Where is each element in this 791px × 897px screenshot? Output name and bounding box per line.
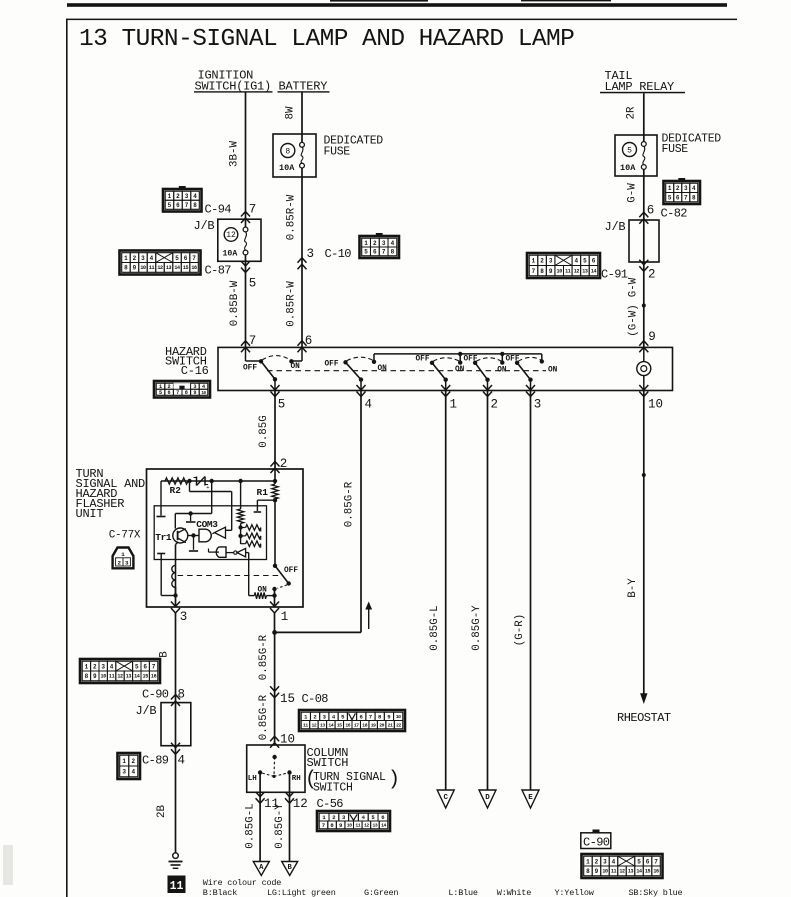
svg-text:RH: RH	[292, 775, 301, 783]
arrowheads entering J/B right pin 6	[639, 212, 648, 217]
svg-text:8: 8	[378, 713, 382, 720]
svg-text:C-90: C-90	[142, 688, 169, 702]
svg-text:OFF: OFF	[416, 356, 430, 364]
svg-text:0.85G-L: 0.85G-L	[429, 605, 441, 650]
svg-text:5: 5	[583, 258, 587, 265]
svg-text:4: 4	[131, 769, 135, 776]
switch 1 wire from pin 7 to OFF contact	[245, 347, 247, 361]
flasher pin 1 exit arrowheads and label	[270, 602, 279, 607]
bus junction for switch 4 ON	[500, 352, 504, 356]
svg-text:C-16: C-16	[181, 364, 209, 378]
hazard ON bus wire feeding switches 2-5	[374, 353, 542, 355]
pin 4 exit arrowheads and label	[357, 385, 366, 390]
svg-text:4: 4	[193, 193, 197, 200]
switch 2 (pin 4): OFF contact, lever, ON contact	[343, 360, 347, 364]
wire stubs through relay fuse	[643, 135, 645, 142]
svg-text:Y:Yellow: Y:Yellow	[555, 888, 595, 897]
svg-text:8: 8	[85, 673, 89, 680]
svg-text:2R: 2R	[626, 106, 638, 119]
svg-text:3: 3	[534, 398, 542, 412]
svg-text:3: 3	[101, 663, 105, 670]
svg-text:C-56: C-56	[317, 797, 344, 811]
node: blob on B-Y wire	[642, 473, 646, 477]
arrowheads entering hazard switch pin 9	[639, 341, 648, 346]
page frame: top heavy rule	[67, 3, 727, 7]
comparator triangle 1	[215, 527, 226, 538]
switch levers to box bottom	[274, 379, 276, 390]
off-page arrow D	[479, 790, 496, 808]
svg-text:2: 2	[676, 185, 680, 192]
node: base rail tap with ground stub	[188, 511, 192, 515]
svg-text:9: 9	[339, 822, 343, 829]
svg-text:13: 13	[628, 869, 634, 875]
svg-text:8W: 8W	[285, 106, 297, 119]
zener diode	[196, 477, 198, 486]
svg-text:2: 2	[133, 255, 137, 262]
svg-text:16: 16	[191, 265, 197, 271]
svg-text:C-87: C-87	[205, 264, 232, 278]
arrowheads leaving J/B pin 4	[171, 743, 180, 748]
svg-text:+: +	[206, 484, 209, 491]
svg-text:SB:Sky blue: SB:Sky blue	[629, 888, 683, 897]
svg-text:8: 8	[193, 202, 197, 209]
arrowheads entering hazard switch pin 7	[241, 341, 250, 346]
svg-text:RHEOSTAT: RHEOSTAT	[617, 711, 671, 725]
flasher IC inner box	[154, 506, 266, 560]
svg-text:9: 9	[549, 268, 553, 275]
dedicated fuse box (tail relay)	[615, 135, 657, 176]
svg-text:19: 19	[371, 722, 376, 728]
svg-text:9: 9	[93, 673, 97, 680]
svg-text:0.85R-W: 0.85R-W	[286, 194, 298, 240]
off-page arrow E	[522, 790, 539, 808]
svg-text:2: 2	[313, 713, 317, 720]
svg-text:3: 3	[125, 560, 129, 567]
wire: junction across and up to hazard pin 4 (0.85G-R)	[275, 631, 361, 633]
svg-text:3: 3	[141, 255, 145, 262]
svg-text:10: 10	[602, 869, 608, 875]
flasher pin 3 exit arrowheads and label	[171, 602, 180, 607]
svg-text:12: 12	[311, 722, 316, 728]
svg-text:11: 11	[149, 265, 155, 271]
svg-text:10: 10	[396, 714, 401, 720]
svg-text:6: 6	[381, 814, 385, 821]
svg-text:ON: ON	[378, 365, 388, 373]
arrowheads leaving J/B pin 5	[241, 261, 250, 266]
svg-text:5: 5	[371, 814, 375, 821]
connector C-82	[678, 178, 685, 181]
svg-text:C-91: C-91	[601, 268, 628, 282]
svg-text:3: 3	[684, 185, 688, 192]
svg-text:15: 15	[337, 722, 342, 728]
svg-text:C-89: C-89	[142, 754, 169, 768]
svg-text:15: 15	[143, 674, 149, 680]
svg-text:3: 3	[342, 814, 346, 821]
svg-text:14: 14	[381, 823, 386, 829]
arrowheads at C-08 pin 15 crossing	[270, 686, 279, 691]
node: R2/zener junction	[187, 479, 191, 483]
svg-text:13: 13	[320, 722, 325, 728]
svg-text:22: 22	[396, 722, 401, 728]
page frame: stray top-edge scan fragments	[330, 0, 428, 2]
arrowheads entering J/B pin 8	[171, 694, 180, 699]
svg-text:14: 14	[328, 722, 333, 728]
node: zener right junction	[210, 479, 214, 483]
wire: LH output 0.85G-L	[259, 773, 261, 862]
svg-text:10: 10	[140, 265, 146, 271]
switch 1 OFF contact	[259, 359, 263, 363]
svg-text:6: 6	[360, 713, 364, 720]
svg-text:5: 5	[135, 663, 139, 670]
svg-text:Tr1: Tr1	[155, 532, 172, 543]
svg-text:B-Y: B-Y	[627, 578, 639, 598]
page left border	[66, 19, 68, 897]
svg-text:11: 11	[170, 880, 184, 893]
svg-text:W:White: W:White	[497, 888, 531, 897]
svg-text:13 TURN-SIGNAL LAMP AND HAZARD: 13 TURN-SIGNAL LAMP AND HAZARD LAMP	[79, 26, 574, 53]
svg-text:2: 2	[595, 858, 599, 865]
svg-text:1: 1	[532, 258, 536, 265]
svg-text:3: 3	[180, 610, 188, 624]
svg-text:0.85G: 0.85G	[258, 415, 270, 447]
svg-text:1: 1	[124, 255, 128, 262]
svg-text:10: 10	[101, 674, 107, 680]
wire stubs through J/B fuse 12	[245, 219, 247, 227]
switch 5 (pin 3)	[515, 361, 519, 365]
svg-text:10A: 10A	[223, 250, 238, 259]
svg-text:ON: ON	[455, 366, 465, 374]
svg-text:0.85B-W: 0.85B-W	[229, 280, 241, 326]
svg-text:0.85G-R: 0.85G-R	[258, 694, 270, 740]
svg-text:11: 11	[303, 722, 308, 728]
svg-text:J/B: J/B	[194, 219, 215, 233]
wire: zener junction to Tr1 base (L path)	[211, 481, 213, 514]
hazard illumination lamp between pins 9 and 10	[643, 347, 645, 361]
svg-text:C-94: C-94	[205, 203, 232, 217]
svg-text:5: 5	[627, 146, 632, 155]
svg-text:16: 16	[345, 722, 350, 728]
svg-text:(G-R): (G-R)	[514, 614, 526, 646]
svg-text:9: 9	[133, 265, 137, 272]
transistor Tr1	[173, 528, 188, 543]
svg-text:15: 15	[183, 265, 189, 271]
svg-text:8: 8	[124, 265, 128, 272]
svg-text:10: 10	[347, 823, 352, 829]
svg-text:4: 4	[575, 258, 579, 265]
svg-text:1: 1	[364, 240, 368, 247]
svg-text:10A: 10A	[620, 163, 636, 173]
svg-text:ON: ON	[497, 367, 507, 375]
junction block J/B (bottom left)	[161, 703, 191, 746]
internal ground bar (left)	[157, 516, 166, 518]
svg-text:0.85G-Y: 0.85G-Y	[471, 605, 483, 651]
svg-text:7: 7	[152, 663, 156, 670]
gate D2	[216, 547, 226, 557]
wire Tr1 emitter to gate	[188, 535, 199, 537]
svg-text:1: 1	[168, 193, 172, 200]
svg-text:7: 7	[654, 858, 658, 865]
svg-text:SWITCH: SWITCH	[313, 782, 353, 795]
column switch box	[247, 745, 305, 792]
wire: hazard pin 3 to arrow E ((G-R))	[530, 391, 532, 791]
svg-text:4: 4	[391, 240, 395, 247]
svg-text:2: 2	[118, 560, 122, 567]
fuse 12 10A inside J/B	[224, 228, 238, 242]
svg-text:12: 12	[117, 674, 123, 680]
svg-text:8: 8	[540, 268, 544, 275]
svg-text:17: 17	[354, 722, 359, 728]
flasher unit outer box	[147, 469, 304, 607]
svg-text:3: 3	[185, 193, 189, 200]
svg-text:16: 16	[151, 674, 157, 680]
node: emitter junction with ground stub	[191, 533, 195, 537]
svg-text:Wire colour code: Wire colour code	[203, 878, 282, 888]
svg-text:5: 5	[168, 202, 172, 209]
arrowheads leaving column switch pin 12	[285, 792, 294, 797]
svg-text:20: 20	[379, 722, 384, 728]
svg-text:13: 13	[373, 823, 378, 829]
svg-text:8: 8	[285, 147, 290, 156]
wire: hazard pin 2 to arrow D (0.85G-Y)	[487, 391, 489, 791]
svg-text:1: 1	[121, 551, 125, 558]
svg-text:3B-W: 3B-W	[229, 141, 241, 167]
body ground symbol	[173, 853, 179, 859]
svg-text:): )	[388, 769, 400, 792]
svg-text:0.85G-R: 0.85G-R	[344, 481, 356, 527]
connector C-90 (column)	[80, 659, 160, 683]
svg-text:9: 9	[595, 868, 599, 875]
svg-text:2: 2	[648, 268, 656, 282]
svg-text:C-10: C-10	[325, 247, 352, 261]
svg-text:R2: R2	[170, 485, 182, 496]
svg-text:7: 7	[369, 713, 372, 720]
svg-text:OFF: OFF	[284, 567, 298, 575]
svg-text:8: 8	[391, 249, 395, 256]
svg-text:5: 5	[249, 277, 257, 291]
svg-text:9: 9	[193, 390, 196, 396]
svg-text:LG:Light green: LG:Light green	[267, 888, 336, 897]
arrowheads entering J/B pin 7	[241, 211, 250, 216]
svg-text:C-90: C-90	[583, 836, 610, 850]
svg-text:6: 6	[646, 858, 650, 865]
svg-text:G-W: G-W	[627, 183, 639, 203]
svg-text:11: 11	[565, 268, 571, 274]
svg-text:7: 7	[249, 334, 257, 348]
pin 2 exit arrowheads and label	[483, 385, 492, 390]
R2 left leg to internal ground	[160, 481, 162, 516]
svg-text:OFF: OFF	[243, 365, 257, 373]
svg-text:4: 4	[612, 858, 616, 865]
svg-text:3: 3	[323, 713, 327, 720]
svg-text:10A: 10A	[279, 163, 295, 173]
svg-text:5: 5	[175, 255, 179, 262]
pin 3 exit arrowheads and label	[526, 385, 535, 390]
svg-text:12: 12	[293, 797, 308, 811]
svg-text:8: 8	[330, 822, 334, 829]
switch 1 travel arc (dashed)	[262, 356, 291, 361]
wire: 0.85R-W from fuse to C-10	[301, 177, 303, 347]
svg-text:6: 6	[168, 390, 171, 396]
wire through J/B	[175, 703, 177, 746]
off-page arrow A	[253, 862, 269, 876]
svg-text:4: 4	[362, 814, 366, 821]
wire stubs through battery fuse	[301, 134, 303, 143]
arrowheads entering hazard switch pin 6	[298, 341, 307, 346]
svg-text:1: 1	[586, 858, 590, 865]
svg-text:1: 1	[122, 758, 126, 765]
column switch internal feed dot	[272, 755, 276, 759]
svg-text:15: 15	[645, 869, 651, 875]
connector C-87	[120, 251, 201, 275]
switch 1 wire from pin 6 to ON contact	[301, 347, 303, 361]
svg-text:2: 2	[373, 240, 377, 247]
arrowhead at rheostat	[640, 693, 647, 704]
dashed lever linkage	[273, 757, 276, 776]
svg-text:6: 6	[176, 202, 180, 209]
svg-text:J/B: J/B	[605, 220, 626, 234]
svg-text:6: 6	[184, 255, 188, 262]
svg-text:J/B: J/B	[136, 704, 157, 718]
switch 1 lever (OFF position)	[261, 361, 275, 379]
svg-text:E: E	[528, 794, 533, 802]
connector C-89	[118, 753, 141, 779]
svg-text:8: 8	[178, 688, 186, 702]
svg-text:14: 14	[591, 268, 597, 274]
svg-text:1: 1	[85, 663, 89, 670]
svg-text:4: 4	[332, 713, 336, 720]
off-page arrow B	[282, 862, 298, 876]
svg-text:A: A	[259, 864, 264, 872]
svg-text:B: B	[159, 651, 171, 658]
fuse 8 10A	[281, 144, 295, 158]
R1 tap into IC with ground bar	[257, 499, 275, 501]
svg-text:13: 13	[166, 265, 172, 271]
svg-text:14: 14	[636, 869, 642, 875]
wire: RH output 0.85G-Y	[289, 773, 291, 862]
svg-text:7: 7	[532, 268, 536, 275]
coil return to internal ground bar	[161, 595, 175, 597]
gate D1 (driver)	[199, 529, 211, 542]
svg-text:7: 7	[176, 390, 179, 396]
svg-text:5: 5	[341, 713, 345, 720]
svg-text:OFF: OFF	[325, 361, 339, 369]
svg-text:3: 3	[122, 769, 126, 776]
flasher ON resistor	[274, 589, 276, 607]
connector C-90 (bottom right) label box	[593, 830, 600, 833]
svg-text:2: 2	[176, 193, 180, 200]
svg-text:12: 12	[157, 265, 163, 271]
svg-text:11: 11	[355, 823, 360, 829]
svg-text:4: 4	[692, 185, 696, 192]
mechanical linkage dashed line across switches	[267, 370, 546, 372]
svg-text:12: 12	[619, 869, 625, 875]
dedicated fuse box (battery)	[273, 134, 316, 177]
connector C-56	[317, 811, 390, 831]
svg-text:3: 3	[603, 858, 607, 865]
arrowheads entering column switch pin 10	[270, 736, 279, 741]
wire: ignition feed 3B-W down to J/B	[245, 93, 247, 220]
svg-text:15: 15	[280, 692, 295, 706]
wire: G-W from fuse to J/B right	[643, 176, 645, 220]
svg-text:7: 7	[322, 822, 325, 829]
svg-text:18: 18	[362, 722, 367, 728]
svg-text:9: 9	[648, 330, 656, 344]
connector C-90 (bottom right)	[582, 854, 663, 878]
node: divider taps	[238, 525, 242, 529]
svg-text:R1: R1	[257, 487, 269, 498]
svg-text:COM3: COM3	[196, 519, 218, 530]
svg-text:8: 8	[692, 194, 696, 201]
svg-text:2: 2	[93, 663, 97, 670]
flasher top rail wire	[161, 480, 275, 482]
svg-text:5: 5	[668, 194, 672, 201]
hazard switch box C-16	[218, 347, 673, 390]
fuse 5 10A	[623, 143, 637, 157]
svg-text:2: 2	[332, 814, 336, 821]
svg-text:11: 11	[109, 674, 115, 680]
node: coil bottom junction	[173, 593, 177, 597]
svg-text:10: 10	[648, 398, 663, 412]
svg-text:0.85G-R: 0.85G-R	[258, 634, 270, 680]
switch 1 ON contact	[289, 359, 293, 363]
connector C-77X (3-pin trapezoid)	[113, 548, 134, 569]
title box top border	[66, 19, 737, 21]
svg-text:14: 14	[134, 674, 140, 680]
wire: feedback from R2 rail to comparator	[189, 481, 191, 492]
connector C-10	[376, 233, 383, 236]
svg-text:4: 4	[365, 398, 373, 412]
wire: hazard pin 1 to arrow C (0.85G-L)	[445, 391, 447, 791]
svg-text:5: 5	[637, 858, 641, 865]
bus junction for switch 3 ON	[458, 352, 462, 356]
switch 4 (pin 2)	[473, 361, 477, 365]
svg-text:0.85G-Y: 0.85G-Y	[274, 803, 286, 849]
wire: G-W from J/B down to hazard switch pin 9	[643, 262, 645, 347]
svg-text:10: 10	[557, 268, 563, 274]
relay coil	[176, 542, 179, 545]
svg-text:B: B	[288, 864, 293, 872]
svg-text:ON: ON	[291, 363, 301, 371]
wire: battery feed 8W	[301, 93, 303, 135]
svg-text:13: 13	[582, 268, 588, 274]
svg-text:13: 13	[126, 674, 132, 680]
svg-text:21: 21	[388, 722, 393, 728]
pin 1 exit arrowheads and label	[441, 385, 450, 390]
pin 5 exit arrowheads and label	[271, 385, 280, 390]
off-page arrow C	[437, 790, 454, 808]
scan smudge bottom left	[3, 845, 13, 885]
svg-text:D: D	[485, 794, 490, 802]
svg-text:7: 7	[192, 255, 196, 262]
wire: 0.85G from hazard pin 5 down to flasher pin 2	[274, 391, 276, 470]
connector C-08	[299, 710, 405, 731]
wire: 2B down to body ground	[175, 746, 177, 853]
svg-text:7: 7	[249, 203, 257, 217]
svg-text:OFF: OFF	[464, 356, 478, 364]
svg-text:0.85R-W: 0.85R-W	[286, 281, 298, 327]
svg-text:11: 11	[611, 869, 617, 875]
svg-text:9: 9	[387, 713, 391, 720]
svg-text:5: 5	[159, 390, 162, 396]
connector C-16	[154, 381, 210, 398]
svg-text:1: 1	[304, 713, 308, 720]
svg-text:6: 6	[592, 258, 596, 265]
pin 10 exit arrowheads and label	[639, 385, 648, 390]
wire: 0.85B-W from J/B down to hazard switch pin 7	[245, 261, 247, 347]
svg-text:4: 4	[110, 663, 114, 670]
svg-text:2: 2	[491, 398, 499, 412]
arrowheads leaving J/B right pin 2	[639, 260, 648, 265]
